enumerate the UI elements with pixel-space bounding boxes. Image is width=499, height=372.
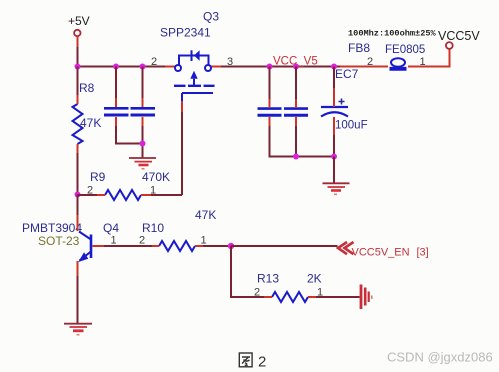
wire C1 elbow [116, 126, 143, 144]
wire R10 left pin [152, 245, 159, 247]
transistor Q4 [22, 221, 119, 262]
capacitor C1 [104, 108, 129, 115]
svg-text:[3]: [3] [417, 247, 429, 259]
caption figure 2 [239, 353, 252, 367]
svg-text:R13: R13 [257, 272, 279, 286]
wire C1 top pin [115, 98, 117, 107]
wire EC7 top [333, 67, 335, 89]
node junction cap3 [267, 64, 273, 70]
node junction C4 bottom [293, 154, 299, 160]
svg-text:R8: R8 [79, 81, 95, 95]
wire C3 top [269, 67, 271, 100]
svg-text:3: 3 [227, 56, 233, 68]
wire C2 bottom pin [142, 117, 144, 126]
svg-text:47K: 47K [80, 116, 101, 130]
svg-text:2: 2 [254, 287, 260, 299]
node junction EC7 bottom [331, 154, 337, 160]
wire R8 to node [77, 153, 79, 195]
node junction cap4 [293, 64, 299, 70]
transistor Q3 [160, 10, 219, 102]
resistor R13 [257, 272, 322, 303]
node junction cap2 [140, 64, 146, 70]
node junction EC7 [331, 64, 337, 70]
svg-text:1: 1 [420, 56, 426, 68]
node junction R10 [228, 243, 234, 249]
svg-text:1: 1 [111, 235, 117, 247]
capacitor C4 [284, 109, 308, 116]
wire pin to Q3 source [165, 66, 175, 68]
ground caps [129, 158, 156, 169]
svg-text:2: 2 [258, 354, 266, 371]
wire C3 elbow [270, 126, 335, 157]
wire Q3 gate pin [181, 101, 183, 112]
wire R13 right pin [308, 296, 316, 298]
wire EC7 lower [333, 135, 335, 157]
node junction caps bottom [140, 141, 146, 147]
svg-text:2: 2 [151, 56, 157, 68]
resistor R9 [90, 170, 170, 200]
resistor R10 [142, 208, 216, 251]
wire top bus to FB8 [340, 66, 388, 68]
svg-text:Q4: Q4 [103, 221, 119, 235]
resistor R8 [73, 81, 102, 144]
wire Q4 emitter pin [77, 261, 79, 276]
svg-text:47K: 47K [195, 208, 216, 222]
wire C2 top pin [142, 98, 144, 107]
wire R10 to junction [203, 245, 231, 247]
wire C3 top pin [269, 99, 271, 108]
wire R8 bottom pin [77, 144, 79, 153]
wire Q4 collector pin [77, 215, 79, 231]
wire EC7 top pin [333, 88, 335, 107]
svg-text:100uF: 100uF [335, 120, 368, 132]
wire R10 right pin [195, 245, 203, 247]
svg-text:1: 1 [201, 235, 207, 247]
svg-text:100Mhz:100ohm±25%: 100Mhz:100ohm±25% [348, 29, 437, 39]
wire junction to port [231, 245, 338, 247]
wire C4 lower [295, 126, 297, 157]
wire R13 to ground [316, 296, 360, 298]
wire R13 left pin [264, 296, 272, 298]
wire Q3 gate drop [181, 112, 183, 195]
wire pin from Q3 drain [211, 66, 221, 68]
svg-text:SPP2341: SPP2341 [160, 26, 211, 40]
node junction +5V [75, 64, 81, 70]
wire Q4 base pin [93, 245, 105, 247]
svg-text:Q3: Q3 [203, 10, 219, 24]
svg-text:2K: 2K [307, 272, 322, 286]
svg-text:CSDN @jgxdz086: CSDN @jgxdz086 [387, 350, 493, 365]
svg-text:FE0805: FE0805 [385, 44, 425, 56]
capacitor EC7 [321, 67, 368, 132]
wire C4 bottom pin [295, 117, 297, 126]
svg-text:R10: R10 [142, 221, 164, 235]
svg-text:SOT-23: SOT-23 [38, 234, 80, 248]
node junction cap1 [113, 64, 119, 70]
svg-text:EC7: EC7 [335, 67, 359, 81]
wire C4 top [295, 67, 297, 100]
wire junction drop [231, 246, 264, 297]
svg-text:2: 2 [367, 56, 373, 68]
wire top bus middle [221, 66, 340, 68]
capacitor C2 [131, 108, 156, 115]
svg-text:R9: R9 [90, 170, 106, 184]
wire C2 to ground [142, 126, 144, 158]
wire EC7 to ground [333, 157, 335, 184]
wire FB8 pin1 to VCC5V [408, 49, 450, 67]
svg-text:VCC5V_EN: VCC5V_EN [352, 247, 410, 259]
svg-text:FB8: FB8 [348, 41, 370, 55]
svg-text:VCC5V: VCC5V [438, 29, 480, 43]
wire R9 left pin [97, 194, 105, 196]
wire +5V pin [77, 37, 79, 48]
wire R8 top pin [77, 95, 79, 104]
wire top bus left [78, 66, 166, 68]
wire C4 top pin [295, 99, 297, 108]
svg-text:VCC_V5: VCC_V5 [273, 56, 318, 68]
wire R9 right pin [141, 194, 151, 196]
svg-text:+5V: +5V [68, 14, 90, 28]
svg-text:2: 2 [139, 235, 145, 247]
wire +5V drop [77, 47, 79, 67]
power terminal VCC5V [438, 29, 480, 49]
wire node to R9 [78, 194, 98, 196]
wire R8 upper [77, 67, 79, 96]
wire R9 to gate [151, 194, 182, 196]
wire C2 top [142, 67, 144, 99]
wire node to Q4 collector [77, 195, 79, 216]
node junction R9 [75, 192, 81, 198]
wire C1 bottom pin [115, 117, 117, 126]
ferrite bead FB8 [348, 41, 425, 69]
ground EC7 [323, 183, 350, 194]
wire EC7 bottom pin [333, 117, 335, 135]
port VCC5V_EN [338, 242, 429, 259]
svg-text:PMBT3904: PMBT3904 [22, 221, 82, 235]
capacitor C3 [258, 109, 282, 116]
power terminal +5V [68, 14, 90, 36]
wire C1 top [115, 67, 117, 99]
wire base to R10 [104, 245, 152, 247]
wire Q4 emitter to ground [77, 276, 79, 324]
wire C3 bottom pin [269, 117, 271, 126]
ground R13 bar style [361, 285, 372, 310]
ground Q4 [64, 324, 92, 335]
svg-text:470K: 470K [142, 170, 170, 184]
